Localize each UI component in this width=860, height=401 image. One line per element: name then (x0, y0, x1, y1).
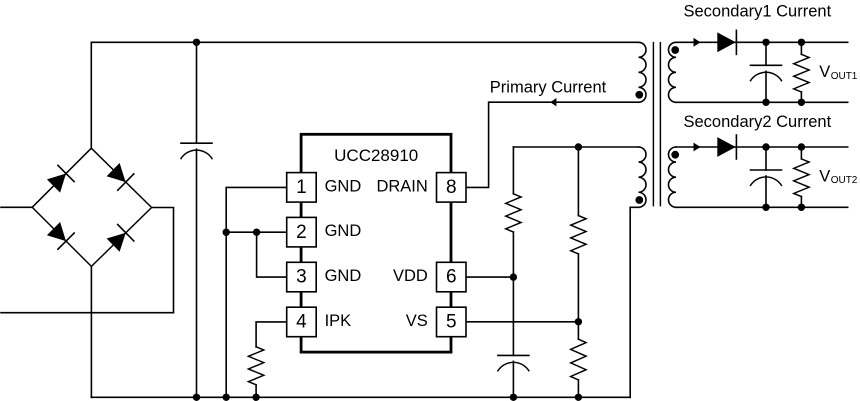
pin 8 box (437, 173, 467, 203)
node junction GND vertical on rail (223, 394, 230, 401)
node junctions output2 (762, 143, 805, 211)
diode D3 (bridge bottom-left) (47, 222, 74, 249)
resistor R5 (load 1) (800, 42, 802, 54)
wire secondary1 top (676, 41, 848, 43)
wire pin4 IPK to resistor (256, 322, 287, 347)
primary current arrow (left) (550, 98, 556, 106)
wire secondary2 bottom (676, 206, 848, 208)
svg-text:UCC28910: UCC28910 (334, 146, 418, 165)
wire pin3 GND branch (257, 232, 287, 277)
wire VS branch upper (577, 147, 579, 216)
wire aux node to auxiliary winding (513, 146, 638, 148)
bridge rectifier diamond (32, 148, 151, 266)
svg-text:5: 5 (446, 312, 457, 333)
svg-text:VDD: VDD (393, 267, 428, 285)
secondary2 phase dot (671, 151, 679, 159)
secondary1 current arrow (694, 38, 701, 47)
transformer core (653, 43, 660, 206)
svg-text:6: 6 (446, 267, 457, 288)
wire secondary2 top (676, 146, 848, 148)
wire pin6 VDD stub (466, 276, 514, 278)
diode D4 (bridge bottom-right) (107, 225, 134, 252)
op-amp U1 UCC28910 body (301, 134, 451, 352)
wire AC input 2 to bridge right vertex (1, 208, 174, 313)
svg-text:3: 3 (296, 267, 307, 288)
wire top rail (B+) (91, 42, 638, 148)
wire R4 to rail (577, 380, 579, 397)
svg-text:IPK: IPK (325, 312, 352, 330)
auxiliary winding (639, 147, 646, 207)
svg-text:Primary Current: Primary Current (490, 78, 607, 96)
wire auxiliary return to rail (630, 207, 638, 397)
wire bridge bottom to ground rail (90, 266, 92, 397)
secondary1 winding (669, 42, 676, 102)
diode D2 (bridge top-right) (107, 163, 134, 190)
secondary1 phase dot (671, 46, 679, 54)
svg-text:GND: GND (325, 267, 362, 285)
resistor R6 (load 2) (800, 147, 802, 159)
svg-text:Secondary1 Current: Secondary1 Current (684, 3, 832, 21)
node junctions output1 (762, 39, 805, 106)
resistor R4 (VS lower) (571, 339, 586, 380)
node junction R1 on rail (252, 394, 259, 401)
resistor R2 (VDD feed) (506, 194, 521, 232)
capacitor C2 (VDD) (498, 355, 529, 370)
svg-text:OUT2: OUT2 (831, 175, 858, 186)
primary phase dot (635, 91, 643, 99)
wire AC input 1 (1, 206, 32, 208)
capacitor C4 (output 2) (765, 147, 767, 170)
capacitor C4 plates (751, 170, 782, 185)
secondary2 winding (668, 147, 676, 207)
node junction R4 on rail (575, 394, 582, 401)
svg-text:GND: GND (325, 177, 362, 195)
svg-text:OUT1: OUT1 (831, 71, 858, 82)
wire R1 to rail (255, 385, 257, 398)
diode D1 (bridge top-left) (47, 165, 74, 192)
node junction VDD (510, 273, 517, 280)
node junction C1 top (193, 39, 200, 46)
wire secondary1 bottom (676, 101, 848, 103)
pin 3 box (287, 262, 317, 292)
node junction aux divider (575, 143, 582, 150)
auxiliary phase dot (635, 196, 643, 204)
wire R3 to R4 (577, 254, 579, 339)
diode D5 (secondary1 rectifier) (717, 30, 736, 54)
svg-text:8: 8 (446, 177, 457, 198)
node junction C1 bottom (193, 394, 200, 401)
svg-text:4: 4 (296, 312, 307, 333)
resistor R1 (IPK set) (248, 347, 263, 385)
wire VDD branch upper (512, 147, 514, 194)
pin 2 box (287, 217, 317, 247)
pin 4 box (287, 307, 317, 337)
svg-text:DRAIN: DRAIN (376, 177, 427, 195)
svg-text:Secondary2 Current: Secondary2 Current (684, 113, 832, 131)
node junction pin2/pin3 branch (253, 229, 260, 236)
resistor R3 (VS upper) (571, 216, 586, 254)
transformer primary winding (639, 42, 647, 102)
capacitor C3 (output 1) (765, 42, 767, 65)
capacitor C1 plates (181, 143, 212, 158)
svg-text:2: 2 (296, 222, 307, 243)
wire pin8 DRAIN to primary winding (466, 102, 639, 187)
node junction C2 on rail (510, 394, 517, 401)
svg-text:GND: GND (325, 222, 362, 240)
svg-text:V: V (819, 63, 830, 81)
wire pin5 VS stub (466, 321, 579, 323)
svg-text:VS: VS (406, 312, 428, 330)
secondary2 current arrow (694, 143, 701, 152)
node junction VS (575, 318, 582, 325)
pin 5 box (437, 307, 467, 337)
pin 1 box (287, 173, 317, 203)
wire R2 to VDD cap (512, 232, 514, 355)
pin 6 box (437, 262, 467, 292)
wire pin1 GND to ground vertical (226, 187, 287, 397)
capacitor C1 bulk input (196, 42, 198, 143)
label VOUT1 (819, 63, 858, 82)
svg-text:1: 1 (296, 177, 307, 198)
wire ground rail (91, 396, 630, 398)
label VOUT2 (819, 167, 858, 186)
wire pin2 GND branch (226, 231, 287, 233)
capacitor C3 plates (751, 65, 782, 80)
svg-text:V: V (819, 167, 830, 185)
node junction GND vertical / pin2 (223, 229, 230, 236)
diode D6 (secondary2 rectifier) (717, 135, 736, 159)
